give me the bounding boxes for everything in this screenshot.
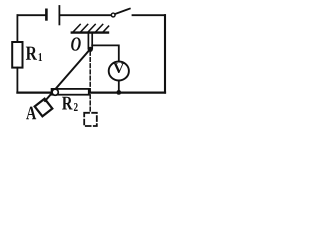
dashed plumb line from pivot [89, 52, 91, 113]
wire bottom left [17, 91, 52, 93]
label A [26, 107, 36, 120]
junction dot voltmeter branch [116, 90, 121, 95]
label V (voltmeter) [113, 63, 124, 73]
wire voltmeter to bottom wire [118, 81, 120, 93]
slider contact on R2 [52, 89, 58, 95]
wire top-left horizontal [17, 14, 45, 16]
switch S (open) [111, 9, 130, 17]
label O (pivot) [71, 37, 81, 50]
label R1 letter R [26, 47, 37, 60]
resistor R2 (rheostat body) [52, 89, 89, 95]
object A (hanging weight, tilted square) [35, 99, 53, 117]
wire switch to top-right corner [133, 14, 166, 16]
lever OA [45, 49, 90, 101]
label R1 subscript 1 [39, 53, 42, 61]
label R2 subscript 2 [74, 103, 78, 111]
label R2 letter R [62, 97, 73, 110]
ceiling support with hatching [72, 24, 109, 32]
wire right vertical [164, 15, 166, 92]
wire left vertical lower [16, 68, 18, 93]
resistor R1 [12, 42, 22, 68]
pivot O joint [88, 47, 93, 52]
wire battery to switch [60, 14, 111, 16]
pivot bracket (clevis) [88, 34, 92, 49]
battery cell [46, 6, 59, 24]
dashed square (plumb position of A) [84, 113, 97, 126]
wire left vertical upper [16, 15, 18, 42]
voltmeter V [109, 62, 129, 81]
wire bottom right [89, 91, 165, 93]
wire pivot to voltmeter [92, 45, 119, 61]
